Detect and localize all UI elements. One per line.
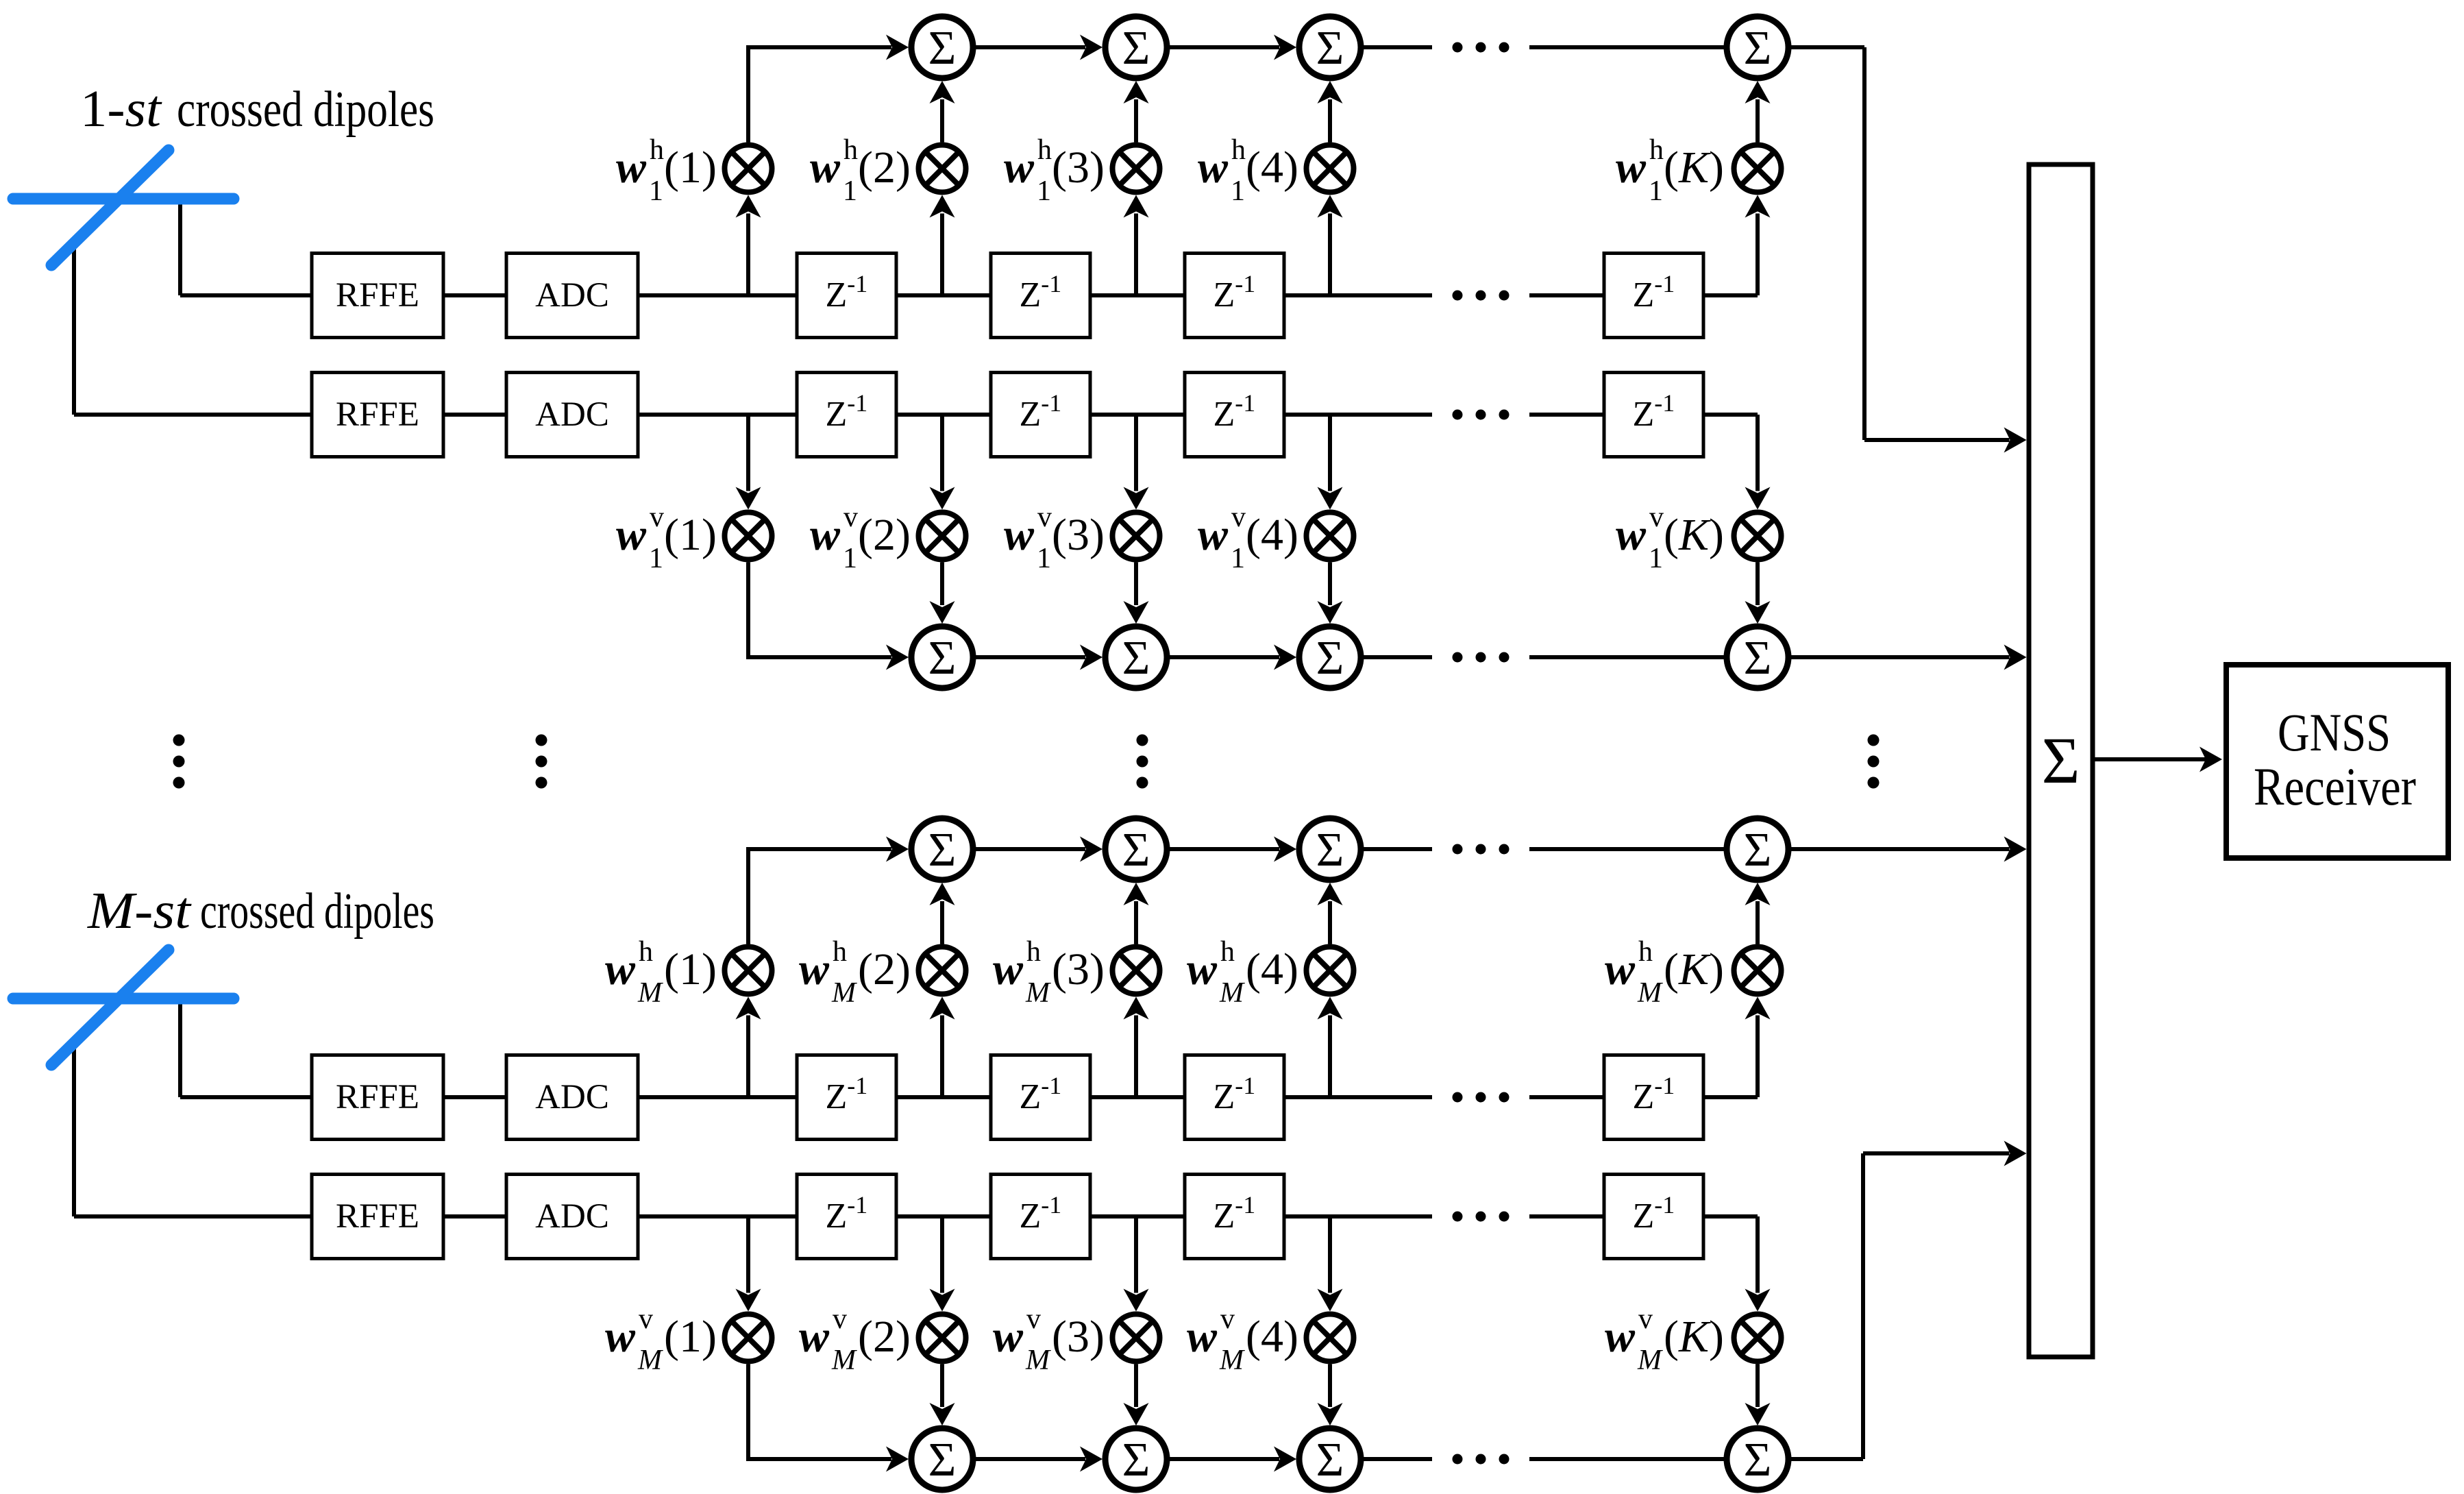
svg-text:(3): (3) (1052, 143, 1105, 193)
svg-text:v: v (1037, 502, 1052, 533)
svg-text:(K): (K) (1664, 1312, 1724, 1362)
svg-text:M: M (1219, 1345, 1245, 1376)
svg-text:Σ: Σ (1316, 824, 1344, 877)
svg-text:v: v (843, 502, 858, 533)
svg-text:w: w (605, 1312, 636, 1362)
svg-text:Σ: Σ (1744, 824, 1772, 877)
svg-text:Σ: Σ (928, 824, 957, 877)
svg-text:(2): (2) (858, 944, 911, 994)
svg-text:1: 1 (1649, 175, 1663, 207)
svg-text:h: h (833, 936, 847, 968)
svg-text:(1): (1) (664, 1312, 717, 1362)
svg-text:h: h (1037, 134, 1052, 166)
svg-text:1: 1 (843, 175, 857, 207)
svg-text:w: w (1616, 510, 1647, 560)
svg-text:RFFE: RFFE (336, 395, 419, 434)
svg-text:M: M (831, 1345, 857, 1376)
svg-text:1: 1 (1037, 543, 1051, 574)
svg-text:v: v (650, 502, 664, 533)
svg-text:ADC: ADC (535, 395, 609, 434)
svg-text:Σ: Σ (1122, 22, 1150, 75)
svg-text:crossed dipoles: crossed dipoles (200, 883, 434, 940)
svg-text:RFFE: RFFE (336, 276, 419, 315)
svg-text:(4): (4) (1246, 1312, 1298, 1362)
svg-text:ADC: ADC (535, 276, 609, 315)
svg-text:w: w (1616, 143, 1647, 193)
svg-text:w: w (605, 944, 636, 994)
svg-text:Σ: Σ (1744, 632, 1772, 685)
svg-text:M: M (831, 977, 857, 1009)
svg-text:ADC: ADC (535, 1197, 609, 1236)
svg-text:w: w (1187, 944, 1218, 994)
svg-text:w: w (1605, 1312, 1636, 1362)
svg-text:Σ: Σ (1122, 1434, 1150, 1486)
svg-text:1: 1 (649, 543, 663, 574)
svg-text:(4): (4) (1246, 510, 1298, 560)
svg-text:M: M (1637, 1345, 1663, 1376)
svg-text:(1): (1) (664, 944, 717, 994)
svg-text:M: M (637, 1345, 663, 1376)
svg-text:Receiver: Receiver (2254, 757, 2416, 816)
svg-text:h: h (1026, 936, 1041, 968)
svg-text:Σ: Σ (2042, 724, 2080, 797)
svg-text:h: h (650, 134, 664, 166)
svg-text:(K): (K) (1664, 510, 1724, 560)
svg-text:h: h (1638, 936, 1653, 968)
svg-text:v: v (1026, 1303, 1041, 1335)
svg-text:Σ: Σ (1316, 632, 1344, 685)
svg-text:Σ: Σ (1744, 22, 1772, 75)
svg-text:1: 1 (843, 543, 857, 574)
svg-text:RFFE: RFFE (336, 1078, 419, 1116)
svg-text:h: h (1649, 134, 1664, 166)
svg-text:1: 1 (1649, 543, 1663, 574)
svg-text:(4): (4) (1246, 944, 1298, 994)
svg-text:1: 1 (1231, 543, 1245, 574)
svg-text:w: w (1605, 944, 1636, 994)
svg-text:Σ: Σ (928, 1434, 957, 1486)
svg-text:(K): (K) (1664, 944, 1724, 994)
svg-text:w: w (1198, 143, 1229, 193)
svg-text:RFFE: RFFE (336, 1197, 419, 1236)
svg-text:M: M (637, 977, 663, 1009)
svg-text:v: v (639, 1303, 653, 1335)
svg-text:(3): (3) (1052, 944, 1105, 994)
svg-text:M-st: M-st (87, 882, 192, 940)
svg-text:v: v (1638, 1303, 1653, 1335)
svg-text:Σ: Σ (1744, 1434, 1772, 1486)
svg-text:h: h (843, 134, 858, 166)
svg-text:h: h (639, 936, 653, 968)
svg-text:h: h (1231, 134, 1246, 166)
svg-text:w: w (1198, 510, 1229, 560)
svg-text:(2): (2) (858, 1312, 911, 1362)
svg-text:(1): (1) (664, 143, 717, 193)
svg-text:w: w (993, 944, 1024, 994)
svg-text:Σ: Σ (928, 632, 957, 685)
svg-text:v: v (1649, 502, 1664, 533)
svg-text:M: M (1219, 977, 1245, 1009)
svg-text:w: w (993, 1312, 1024, 1362)
svg-text:w: w (616, 510, 647, 560)
svg-text:w: w (799, 944, 830, 994)
svg-text:v: v (1220, 1303, 1235, 1335)
svg-text:1-st: 1-st (80, 80, 162, 138)
svg-text:(3): (3) (1052, 510, 1105, 560)
svg-text:w: w (810, 143, 841, 193)
svg-text:w: w (616, 143, 647, 193)
svg-text:(2): (2) (858, 510, 911, 560)
svg-text:v: v (833, 1303, 847, 1335)
svg-text:(1): (1) (664, 510, 717, 560)
svg-text:M: M (1637, 977, 1663, 1009)
svg-text:(4): (4) (1246, 143, 1298, 193)
svg-text:h: h (1220, 936, 1235, 968)
svg-text:Σ: Σ (1122, 824, 1150, 877)
svg-text:ADC: ADC (535, 1078, 609, 1116)
svg-text:(3): (3) (1052, 1312, 1105, 1362)
svg-text:M: M (1025, 977, 1051, 1009)
svg-text:w: w (810, 510, 841, 560)
svg-text:w: w (1004, 143, 1035, 193)
svg-text:1: 1 (1231, 175, 1245, 207)
svg-text:w: w (1187, 1312, 1218, 1362)
svg-text:1: 1 (1037, 175, 1051, 207)
svg-text:Σ: Σ (928, 22, 957, 75)
svg-text:w: w (799, 1312, 830, 1362)
svg-text:(2): (2) (858, 143, 911, 193)
svg-text:1: 1 (649, 175, 663, 207)
svg-text:GNSS: GNSS (2278, 702, 2391, 762)
svg-text:w: w (1004, 510, 1035, 560)
svg-text:Σ: Σ (1316, 22, 1344, 75)
svg-text:M: M (1025, 1345, 1051, 1376)
svg-text:crossed dipoles: crossed dipoles (177, 82, 434, 138)
svg-text:(K): (K) (1664, 143, 1724, 193)
svg-text:Σ: Σ (1122, 632, 1150, 685)
svg-text:Σ: Σ (1316, 1434, 1344, 1486)
svg-text:v: v (1231, 502, 1246, 533)
